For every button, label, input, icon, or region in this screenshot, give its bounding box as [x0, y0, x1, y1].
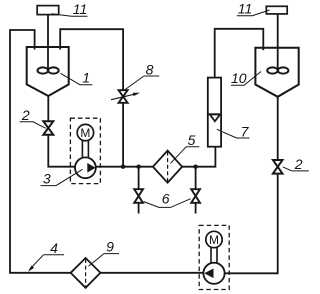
label 9	[89, 238, 120, 266]
wire: right pump outlet to right riser	[225, 174, 278, 274]
valve 6 right	[191, 189, 200, 203]
svg-text:8: 8	[146, 62, 154, 78]
funnel inside column 7	[208, 114, 221, 121]
coupling left	[82, 141, 88, 158]
diamond filter 5	[153, 151, 182, 183]
svg-text:5: 5	[188, 132, 196, 148]
label 2 right	[283, 156, 309, 172]
label 1	[61, 69, 93, 85]
column 7	[208, 78, 221, 147]
node J3 (drain right / manifold)	[193, 165, 197, 169]
svg-text:6: 6	[162, 190, 170, 206]
label 11 right	[237, 0, 270, 16]
wire: left pump outlet manifold to diamond 5	[96, 166, 153, 168]
node J1 (valve8 branch / manifold)	[121, 165, 125, 169]
svg-text:7: 7	[241, 123, 250, 139]
motor circle M right	[206, 231, 222, 247]
motor box 11 right	[266, 6, 287, 14]
motor circle M left	[77, 124, 93, 140]
label 3 left	[41, 169, 83, 186]
label 2 left	[20, 107, 46, 128]
svg-text:9: 9	[106, 238, 114, 254]
svg-text:11: 11	[238, 0, 253, 16]
pump left flow triangle	[87, 163, 95, 173]
svg-text:2: 2	[294, 156, 303, 172]
label 4 with arrow to bottom line	[28, 240, 64, 272]
wire: valve 2 left to left pump inlet	[48, 135, 75, 167]
label 6	[144, 190, 191, 207]
propeller of tank 10	[267, 67, 288, 73]
wire: drain branch right (to valve 6 right)	[195, 167, 197, 190]
svg-text:2: 2	[21, 107, 30, 123]
svg-text:11: 11	[73, 1, 88, 17]
node J2 (drain left / manifold)	[136, 165, 140, 169]
motor box 11 left	[37, 6, 59, 15]
svg-text:10: 10	[231, 70, 247, 86]
pump circle left	[75, 157, 96, 178]
wire: tank1 outlet to valve 2 left	[47, 96, 49, 121]
valve 2 left	[43, 121, 53, 135]
label 10	[231, 70, 261, 86]
tank 10 (mixer vessel right)	[255, 48, 298, 97]
pump circle right	[203, 263, 224, 284]
valve 2 right	[273, 160, 283, 174]
valve 8 arrow	[111, 94, 137, 100]
tank 1 (mixer vessel left)	[27, 47, 69, 96]
svg-text:4: 4	[50, 240, 58, 256]
label 11 left	[52, 1, 88, 17]
pump unit 3 right: dashed enclosure	[199, 225, 229, 289]
propeller of tank 1	[38, 67, 59, 73]
svg-text:3: 3	[43, 171, 51, 187]
agitator shaft left	[47, 15, 49, 71]
pump right flow triangle	[204, 269, 213, 279]
label 5	[171, 132, 200, 163]
svg-text:M: M	[80, 126, 90, 140]
valve 8 (regulating)	[119, 90, 128, 103]
wire: tank1 top feed / left recirculation line / bottom left run	[10, 30, 71, 273]
diamond filter 9	[71, 258, 101, 288]
wire: drain branch left (to valve 6 left)	[138, 167, 140, 190]
wire: column 7 top to tank10 top	[215, 29, 264, 78]
valve 6 left	[134, 189, 143, 203]
svg-text:1: 1	[82, 69, 90, 85]
wire: tank1 top branch to valve 8	[60, 29, 123, 90]
wire: valve 8 to manifold	[122, 103, 124, 167]
svg-text:M: M	[209, 233, 219, 247]
pump unit 3 left: dashed enclosure	[70, 118, 100, 183]
wire: bottom middle run (diamond 9 to right pump)	[101, 272, 204, 274]
label 7	[217, 123, 250, 139]
agitator shaft right	[277, 14, 279, 71]
coupling right	[211, 248, 217, 264]
label 8	[125, 62, 160, 91]
wire: right riser (tank10 outlet to valve 2 right)	[277, 97, 279, 160]
wire: diamond 5 to column 7 bottom	[182, 147, 215, 167]
